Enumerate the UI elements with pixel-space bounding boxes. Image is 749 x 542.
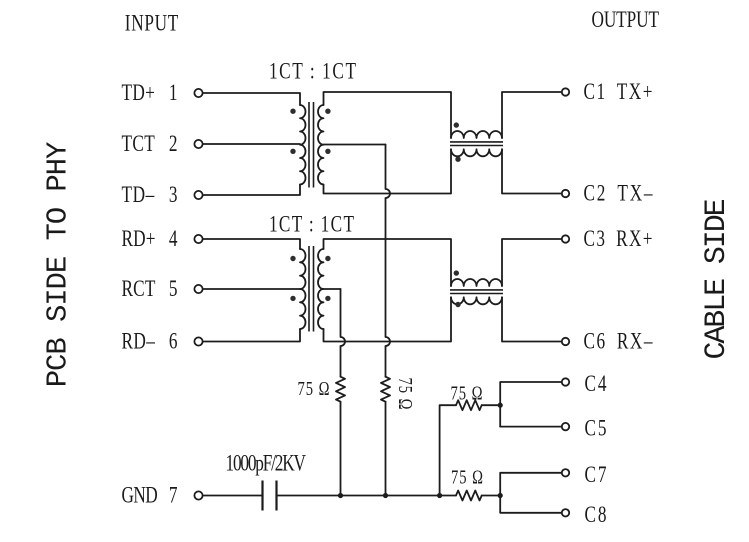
pin terminal C6	[562, 338, 569, 345]
choke L1 lower winding	[451, 149, 502, 156]
resistor R3 75ohm	[456, 400, 482, 410]
svg-text:RCT 5: RCT 5	[122, 277, 178, 302]
wire node C45 to pin C5	[500, 426, 561, 428]
wire R2 to ground rail	[385, 402, 387, 496]
resistor R4 75ohm on rail	[456, 491, 482, 501]
polarity dot T1 secondary lower	[325, 149, 330, 154]
wire ground rail to R3	[440, 405, 456, 495]
pin label C4	[585, 372, 607, 397]
pin terminal C5	[562, 423, 569, 430]
pin label TD+ 1	[122, 81, 178, 106]
pin terminal C7	[562, 469, 569, 476]
wire R1 to ground rail	[340, 402, 342, 496]
junction node C45	[498, 403, 503, 408]
svg-text:75 Ω: 75 Ω	[451, 467, 483, 488]
pin terminal 7 (GND)	[194, 491, 202, 499]
wire node R1 vertical with hop	[341, 289, 346, 377]
wire T1 secondary bottom to choke L1	[324, 149, 452, 193]
wire node C78 to pin C8	[500, 496, 561, 513]
pin terminal C8	[562, 509, 569, 516]
svg-text:75 Ω: 75 Ω	[394, 378, 415, 410]
value label 75 Ω (R2, rotated)	[394, 378, 415, 410]
pin label TD- 3	[122, 183, 178, 208]
net label OUTPUT	[592, 8, 660, 33]
polarity dot T2 primary top	[290, 256, 295, 261]
pin label C3 RX+	[584, 227, 653, 252]
svg-text:TD– 3: TD– 3	[122, 183, 178, 208]
resistor R2 75ohm vertical	[381, 377, 390, 402]
pin terminal C2	[562, 190, 569, 197]
pin terminal 2 (TCT)	[194, 140, 202, 148]
svg-text:RD– 6: RD– 6	[122, 329, 178, 354]
transformer T2 primary winding	[300, 249, 306, 329]
svg-text:1CT : 1CT: 1CT : 1CT	[269, 212, 354, 237]
wire choke L2 lower to pin C6	[502, 297, 561, 341]
polarity dot L2 upper	[454, 270, 459, 275]
polarity dot T1 secondary top	[325, 109, 330, 114]
svg-text:CABLE SIDE: CABLE SIDE	[700, 199, 734, 359]
wire ground rail	[278, 495, 457, 497]
svg-text:C5: C5	[585, 416, 607, 441]
wire R4 to node C78	[482, 495, 501, 497]
svg-text:1000pF/2KV: 1000pF/2KV	[226, 451, 307, 476]
pin label C6 RX–	[584, 329, 654, 354]
wire R3 to node C45	[482, 404, 501, 406]
pin terminal C4	[562, 378, 569, 385]
transformer T1 secondary winding	[318, 105, 324, 185]
svg-text:INPUT: INPUT	[125, 11, 179, 36]
svg-text:C3 RX+: C3 RX+	[584, 227, 653, 252]
pin label RCT 5	[122, 277, 178, 302]
polarity dot L1 lower	[455, 157, 460, 162]
choke L2 core	[450, 290, 503, 294]
pin label RD+ 4	[122, 227, 178, 252]
wire node R2 vertical with hops	[386, 145, 391, 377]
svg-text:RD+ 4: RD+ 4	[122, 227, 178, 252]
capacitor 1000pF/2KV	[263, 481, 277, 511]
wire pin4 RD+ to T2 primary top	[203, 239, 300, 249]
pin label TCT 2	[122, 132, 178, 157]
pin terminal 4 (RD+)	[194, 235, 202, 243]
polarity dot T2 secondary top	[325, 256, 330, 261]
svg-text:TD+ 1: TD+ 1	[122, 81, 178, 106]
wire T2 secondary center tap to node R1	[324, 288, 341, 290]
wire pin5 RCT to T2 primary center tap	[203, 288, 300, 290]
pin label C7	[585, 463, 607, 488]
choke L2 lower winding	[451, 297, 502, 304]
pin terminal C3	[562, 235, 569, 242]
svg-text:C8: C8	[585, 503, 607, 528]
wire pin7 GND to capacitor C1	[203, 495, 262, 497]
wire pin3 TD- to T1 primary bottom	[203, 185, 300, 196]
transformer T1 primary winding	[300, 105, 306, 185]
value label 1CT : 1CT (T1)	[269, 59, 356, 84]
svg-text:C4: C4	[585, 372, 607, 397]
pin terminal 1 (TD+)	[194, 89, 202, 97]
pin label C1 TX+	[584, 80, 653, 105]
svg-text:GND 7: GND 7	[122, 483, 178, 508]
wire pin2 TCT to T1 primary center tap	[203, 143, 300, 145]
svg-text:75 Ω: 75 Ω	[298, 378, 330, 399]
value label 1000pF/2KV	[226, 451, 307, 476]
svg-text:PCB SIDE TO PHY: PCB SIDE TO PHY	[42, 142, 75, 387]
svg-text:C7: C7	[585, 463, 607, 488]
transformer T2 core	[309, 246, 314, 332]
pin terminal C1	[562, 88, 569, 95]
wire choke L1 lower to pin C2	[502, 149, 561, 193]
svg-text:TCT 2: TCT 2	[122, 132, 178, 157]
polarity dot L1 upper	[454, 122, 459, 127]
value label 75 Ω (R4)	[451, 467, 483, 488]
net label INPUT	[125, 11, 179, 36]
choke L1 core	[450, 142, 503, 146]
pin label RD- 6	[122, 329, 178, 354]
junction rail-R3 branch	[437, 493, 442, 498]
svg-text:OUTPUT: OUTPUT	[592, 8, 660, 33]
wire T2 secondary bottom to choke L2	[324, 297, 452, 341]
resistor R1 75ohm vertical	[336, 377, 345, 402]
pin label GND 7	[122, 483, 178, 508]
transformer T1 core	[309, 102, 314, 188]
polarity dot T2 primary lower	[290, 296, 295, 301]
junction rail-R1	[338, 493, 343, 498]
polarity dot T1 primary lower	[290, 149, 295, 154]
svg-text:C6 RX–: C6 RX–	[584, 329, 654, 354]
wire node C45 to pin C4	[500, 382, 561, 427]
junction node C78	[498, 493, 503, 498]
pin terminal 6 (RD-)	[194, 337, 202, 345]
svg-text:1CT : 1CT: 1CT : 1CT	[269, 59, 356, 84]
svg-text:C2 TX–: C2 TX–	[584, 181, 654, 206]
wire T2 secondary top to choke L2	[324, 239, 452, 286]
choke L1 upper winding	[451, 131, 502, 138]
pin terminal 5 (RCT)	[194, 285, 202, 293]
value label 75 Ω (R1)	[298, 378, 330, 399]
wire node C78 to pin C7	[500, 473, 561, 496]
pin label C5	[585, 416, 607, 441]
wire T1 secondary center tap to node R2	[324, 144, 386, 146]
transformer T2 secondary winding	[318, 249, 324, 329]
wire choke L1 upper to pin C1	[502, 92, 561, 138]
junction rail-R2	[383, 493, 388, 498]
value label 1CT : 1CT (T2)	[269, 212, 354, 237]
wire choke L2 upper to pin C3	[502, 239, 561, 286]
pin terminal 3 (TD-)	[194, 191, 202, 199]
wire T1 secondary top to choke L1	[324, 92, 452, 138]
polarity dot L2 lower	[455, 302, 460, 307]
svg-text:75 Ω: 75 Ω	[451, 383, 483, 404]
wire pin6 RD- to T2 primary bottom	[203, 329, 300, 342]
value label 75 Ω (R3)	[451, 383, 483, 404]
pin label C2 TX–	[584, 181, 654, 206]
polarity dot T1 primary top	[290, 109, 295, 114]
wire pin1 TD+ to T1 primary top	[203, 93, 300, 105]
polarity dot T2 secondary lower	[325, 296, 330, 301]
choke L2 upper winding	[451, 279, 502, 286]
pin label C8	[585, 503, 607, 528]
svg-text:C1 TX+: C1 TX+	[584, 80, 653, 105]
